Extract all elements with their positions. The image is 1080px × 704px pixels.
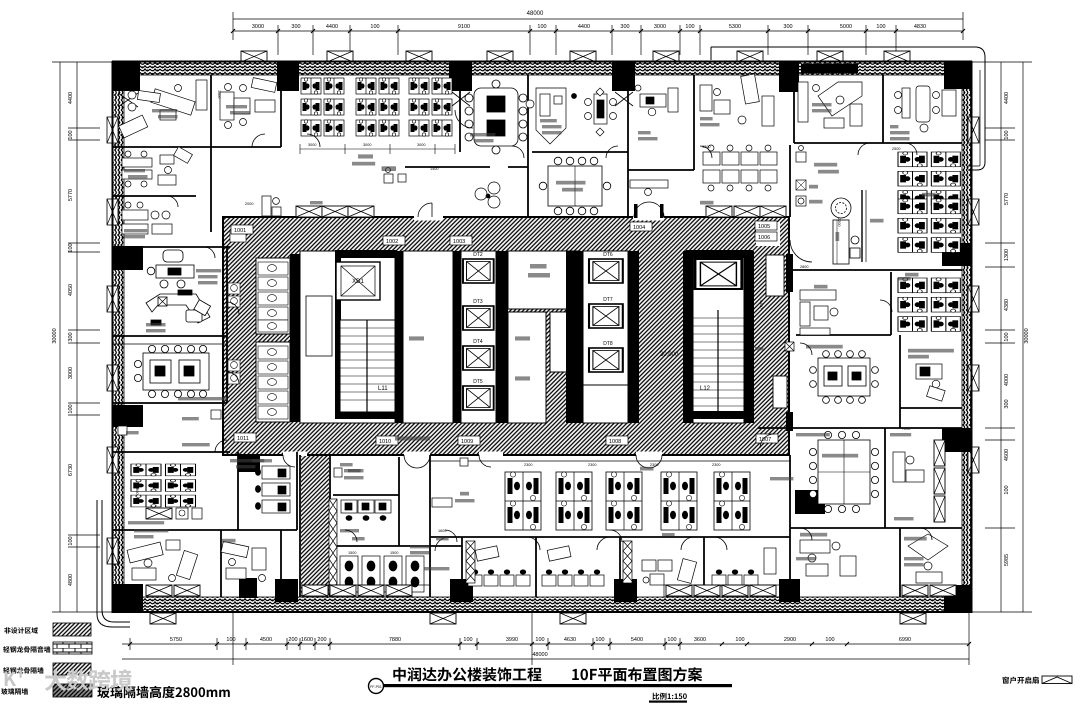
- svg-text:30000: 30000: [52, 328, 58, 343]
- svg-text:30000: 30000: [1024, 328, 1030, 343]
- svg-text:7880: 7880: [389, 637, 401, 643]
- svg-text:6990: 6990: [899, 637, 911, 643]
- svg-text:7000: 7000: [560, 217, 568, 221]
- pantry room y406-452: [118, 410, 221, 435]
- X braces at columns: [118, 92, 633, 107]
- svg-text:4050: 4050: [68, 284, 74, 296]
- top band verticals: [210, 75, 212, 147]
- svg-text:1002: 1002: [386, 239, 398, 245]
- svg-text:9100: 9100: [458, 24, 470, 30]
- svg-text:100: 100: [667, 637, 676, 643]
- svg-text:4830: 4830: [914, 24, 926, 30]
- bottom dimension chains: [122, 610, 969, 665]
- file cabinets along core top: [296, 206, 374, 217]
- svg-text:4600: 4600: [1004, 449, 1010, 461]
- svg-text:DT1: DT1: [713, 252, 723, 258]
- bottom-left rooms: [237, 452, 239, 530]
- svg-text:3300: 3300: [702, 145, 710, 149]
- svg-text:300: 300: [291, 24, 300, 30]
- door arcs into core: [418, 110, 664, 217]
- svg-text:1005: 1005: [758, 224, 770, 230]
- window X symbols right wall: [968, 117, 979, 473]
- svg-text:5000: 5000: [840, 24, 852, 30]
- hatched exit corridor strip 300-330: [301, 456, 329, 596]
- door arcs bottom rooms: [435, 537, 727, 551]
- reception sofa circles: [475, 182, 500, 208]
- svg-text:1400: 1400: [430, 167, 438, 171]
- svg-text:300: 300: [620, 24, 629, 30]
- svg-text:2000: 2000: [245, 202, 253, 206]
- svg-text:1008: 1008: [609, 439, 621, 445]
- small sofa left corner of open area: [262, 196, 281, 216]
- svg-text:3000: 3000: [417, 143, 425, 147]
- water dispenser + small: [382, 167, 406, 183]
- window X symbols above top wall: [241, 51, 910, 62]
- svg-text:5985: 5985: [1004, 554, 1010, 566]
- svg-text:1010: 1010: [379, 439, 391, 445]
- svg-text:2200: 2200: [837, 218, 841, 226]
- svg-text:DT5: DT5: [473, 379, 483, 385]
- door arcs top band: [167, 134, 932, 542]
- svg-text:30.000: 30.000: [660, 352, 679, 358]
- svg-text:100: 100: [68, 243, 74, 252]
- svg-text:9400: 9400: [759, 300, 763, 308]
- svg-text:100: 100: [370, 24, 379, 30]
- right wall band: [962, 62, 972, 612]
- svg-text:DT4: DT4: [473, 339, 483, 345]
- svg-text:100: 100: [537, 24, 546, 30]
- svg-text:300: 300: [783, 24, 792, 30]
- svg-text:3000: 3000: [68, 367, 74, 379]
- extra tick marks on top chain: [231, 29, 965, 33]
- bottom-middle rooms: [299, 455, 301, 597]
- dim line under grid: [300, 144, 455, 154]
- svg-text:48000: 48000: [527, 11, 544, 17]
- radiator wave bands + X boxes along inside bottom wall: [146, 585, 956, 597]
- window X below bottom wall: [150, 613, 926, 624]
- left lower offices: [127, 540, 198, 582]
- office 628-694: [635, 85, 678, 116]
- room1 exec office desk: [119, 80, 207, 138]
- svg-text:100: 100: [463, 637, 472, 643]
- svg-text:L11: L11: [378, 386, 388, 392]
- svg-text:7200: 7200: [902, 427, 910, 431]
- svg-text:1006: 1006: [758, 235, 770, 241]
- rooms 333-399: [348, 469, 361, 472]
- svg-text:3000: 3000: [252, 24, 264, 30]
- elevator bank DT2-DT5: [453, 251, 508, 423]
- svg-text:100: 100: [535, 637, 544, 643]
- bottom wall band: [113, 597, 972, 612]
- toilet block: [228, 230, 290, 422]
- exec office 528-628: [526, 88, 617, 144]
- svg-text:1500: 1500: [217, 90, 221, 98]
- mid-room small furniture: [475, 546, 696, 584]
- top chain dimension line: [233, 25, 963, 55]
- svg-text:1500: 1500: [390, 551, 398, 555]
- svg-text:100: 100: [595, 637, 604, 643]
- svg-text:1600: 1600: [438, 529, 446, 533]
- svg-text:1004: 1004: [633, 225, 645, 231]
- left wall band: [113, 62, 124, 612]
- elevator hall corridor (white): [403, 251, 453, 423]
- outer thin pipe line top right: [711, 47, 985, 170]
- core corridor labels: [231, 221, 778, 445]
- exec office 794-883: [798, 82, 862, 128]
- svg-text:1011: 1011: [237, 436, 249, 442]
- svg-text:1500: 1500: [348, 551, 356, 555]
- svg-text:DT2: DT2: [473, 252, 483, 258]
- svg-text:3600: 3600: [694, 637, 706, 643]
- watermark: [5, 669, 22, 686]
- left dimension chains: [52, 62, 112, 612]
- svg-text:4500: 4500: [260, 637, 272, 643]
- tiny room area labels: [124, 103, 924, 566]
- svg-text:4400: 4400: [578, 24, 590, 30]
- top overall dimension line 48000: [233, 12, 963, 40]
- open office desk grid 3x3 pairs: [301, 78, 344, 136]
- svg-text:DT8: DT8: [603, 341, 613, 347]
- svg-text:5400: 5400: [631, 637, 643, 643]
- svg-text:3000: 3000: [308, 143, 316, 147]
- svg-text:100: 100: [68, 536, 74, 545]
- svg-text:1600: 1600: [301, 637, 313, 643]
- svg-text:1001: 1001: [234, 228, 246, 234]
- bottom right window legend: [1002, 677, 1038, 684]
- desk row under y546: [340, 556, 424, 592]
- exec office desk assembly: [146, 250, 211, 325]
- stair shaft 1 (L11 + XD1): [290, 250, 403, 423]
- svg-text:FF-P01: FF-P01: [370, 685, 382, 689]
- svg-text:100: 100: [825, 637, 834, 643]
- svg-text:300: 300: [1004, 399, 1010, 408]
- svg-text:4800: 4800: [68, 574, 74, 586]
- lobby reception: [831, 190, 866, 264]
- door arc from corridor: [215, 440, 227, 452]
- svg-text:4000: 4000: [1004, 374, 1010, 386]
- top band horizontals: [113, 146, 281, 148]
- room2 office: [220, 78, 277, 129]
- svg-text:48000: 48000: [532, 652, 547, 658]
- X-brace strip at wall 330: [329, 499, 337, 595]
- window X symbols left wall: [107, 117, 118, 564]
- machine rooms center: [508, 251, 580, 423]
- svg-text:1800: 1800: [135, 486, 139, 494]
- 10p meeting room (522-628, 146-217): [539, 157, 611, 215]
- right dimension chains: [966, 62, 1032, 612]
- svg-text:5770: 5770: [68, 189, 74, 201]
- top wall band: [113, 62, 972, 75]
- svg-text:3000: 3000: [363, 143, 371, 147]
- thick building outline: [112, 61, 972, 613]
- svg-text:1009: 1009: [461, 439, 473, 445]
- middle band: secretary + office on left strip: [122, 147, 192, 187]
- door leaves 1004: [634, 204, 638, 218]
- svg-text:2800: 2800: [800, 265, 808, 269]
- office 694-780: [700, 74, 774, 126]
- svg-text:6730: 6730: [68, 464, 74, 476]
- cabinets + desk right side y428-528: [934, 440, 945, 522]
- elevator bank DT6-DT8: [566, 251, 639, 423]
- 会客室 two square tables: [810, 351, 879, 404]
- svg-text:1300: 1300: [1004, 249, 1010, 261]
- tea room 883-962: [895, 86, 957, 132]
- svg-text:100: 100: [735, 637, 744, 643]
- manager office right 900-962 y335-408: [916, 364, 945, 401]
- 大厅 hall 430-500: [460, 492, 469, 496]
- main entry door arcs at lobby bottom: [790, 240, 812, 262]
- svg-text:4630: 4630: [564, 637, 576, 643]
- structural columns (black): [113, 62, 972, 612]
- svg-text:2300: 2300: [712, 463, 720, 467]
- svg-text:2300: 2300: [588, 463, 596, 467]
- lounge sofa 796-891 y272-335: [800, 290, 838, 335]
- svg-text:2300: 2300: [650, 463, 658, 467]
- svg-text:DT7: DT7: [603, 297, 613, 303]
- left: desk grid room: [131, 464, 196, 507]
- svg-text:1003: 1003: [453, 239, 465, 245]
- open office 5 desk clusters (505-755, 472-532): [505, 472, 541, 530]
- right of core: [789, 145, 791, 217]
- meeting room two square tables: [134, 345, 209, 397]
- svg-text:100: 100: [685, 24, 694, 30]
- svg-text:4400: 4400: [326, 24, 338, 30]
- meeting room table 10p vertical: [465, 80, 527, 154]
- svg-text:XD1: XD1: [352, 279, 364, 285]
- svg-text:4400: 4400: [1004, 92, 1010, 104]
- svg-text:DT6: DT6: [603, 252, 613, 258]
- svg-text:DT3: DT3: [473, 299, 483, 305]
- bottom rooms desk rows: [468, 548, 776, 586]
- svg-text:3990: 3990: [506, 637, 518, 643]
- right open office 3 clusters: [898, 152, 960, 206]
- svg-text:200: 200: [317, 637, 326, 643]
- svg-text:100: 100: [1004, 485, 1010, 494]
- long desk in corridor room 628-694: [630, 180, 668, 196]
- svg-text:100: 100: [876, 24, 885, 30]
- left strip: [113, 195, 196, 197]
- svg-text:100: 100: [1004, 130, 1010, 139]
- svg-text:2900: 2900: [784, 637, 796, 643]
- bottom right offices y528-597: [800, 534, 948, 583]
- door openings in core walls: [283, 214, 780, 459]
- closets in right hatch strip: [766, 255, 784, 296]
- svg-text:2300: 2300: [524, 463, 532, 467]
- svg-text:200: 200: [288, 637, 297, 643]
- svg-text:L12: L12: [700, 386, 711, 392]
- svg-text:3000: 3000: [654, 24, 666, 30]
- svg-text:5770: 5770: [1004, 193, 1010, 205]
- svg-text:4380: 4380: [1004, 299, 1010, 311]
- svg-text:100: 100: [68, 404, 74, 413]
- svg-text:5750: 5750: [170, 637, 182, 643]
- desk row right of door 1004: [703, 145, 777, 191]
- outer thin pipe line bottom left: [97, 500, 130, 627]
- svg-text:300: 300: [68, 332, 74, 341]
- svg-text:5300: 5300: [729, 24, 741, 30]
- svg-text:2500: 2500: [892, 147, 900, 151]
- stair shaft 2 (L12 + DT1): [683, 250, 754, 423]
- scattered small dimension texts: [135, 90, 910, 555]
- X brace strips between rooms: [466, 541, 632, 583]
- svg-text:100: 100: [1004, 332, 1010, 341]
- svg-text:100: 100: [68, 130, 74, 139]
- big conference room bottom right y428-528: [809, 431, 878, 512]
- svg-text:100: 100: [226, 637, 235, 643]
- svg-text:4400: 4400: [68, 92, 74, 104]
